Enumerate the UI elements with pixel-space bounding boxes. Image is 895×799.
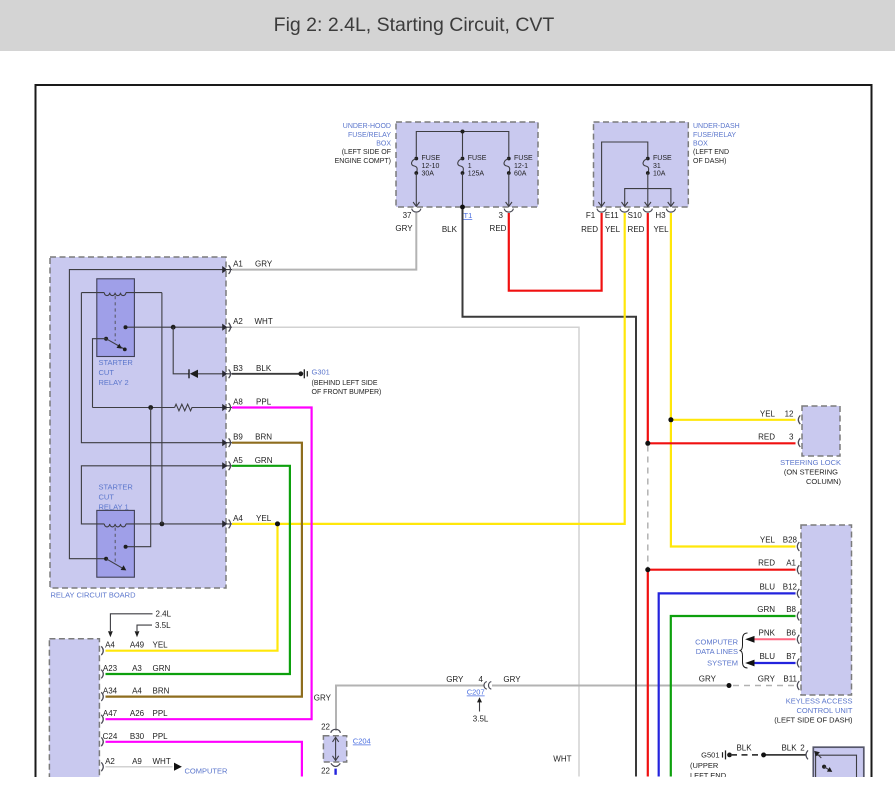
svg-text:22: 22 (321, 767, 330, 776)
svg-text:WHT: WHT (153, 757, 171, 766)
svg-text:BLK: BLK (256, 364, 272, 373)
svg-text:FUSE/RELAY: FUSE/RELAY (348, 132, 391, 139)
svg-text:A9: A9 (132, 757, 142, 766)
bottom box pin A4/A49 (101, 641, 168, 655)
fuse 12-10 30A (412, 155, 441, 206)
svg-text:3.5L: 3.5L (155, 621, 171, 630)
svg-text:RED: RED (758, 433, 775, 442)
svg-text:G301: G301 (312, 368, 330, 377)
svg-text:YEL: YEL (760, 410, 776, 419)
svg-text:B7: B7 (786, 652, 796, 661)
svg-text:C207: C207 (467, 688, 485, 697)
pin F1 connector (586, 202, 606, 220)
wire BLU keyless B12 (659, 593, 796, 776)
svg-text:30A: 30A (422, 171, 435, 178)
starter cut relay 2 label (99, 358, 134, 387)
svg-text:22: 22 (321, 723, 330, 732)
wire BRN B9 to A34 (106, 443, 302, 697)
steering lock label (780, 458, 841, 486)
blue stub below C204 (334, 769, 336, 775)
wire GRY to keyless B11 (dashed) (733, 685, 796, 687)
connector C207 (446, 675, 521, 697)
wire: F1 feed (602, 142, 648, 206)
header band (0, 0, 895, 51)
wire YEL branch to A4/A49 pin (106, 524, 278, 651)
svg-text:H3: H3 (655, 211, 666, 220)
node: GRY junction (727, 683, 732, 688)
svg-text:COMPUTER: COMPUTER (695, 638, 739, 647)
starter cut relay 2 box (97, 279, 135, 357)
svg-text:GRY: GRY (446, 675, 464, 684)
svg-text:10A: 10A (653, 171, 666, 178)
wire: A5 to relay1 coil (81, 466, 232, 524)
svg-text:WHT: WHT (254, 317, 272, 326)
bottom box pin A34/A4 (101, 687, 169, 701)
wire: A8 row (93, 407, 175, 409)
wire YEL to keyless B28 (671, 420, 796, 547)
keyless pin A1 (758, 559, 799, 575)
svg-text:SYSTEM: SYSTEM (707, 659, 738, 668)
wire PPL A8 to A47 (106, 408, 312, 720)
svg-text:RELAY 1: RELAY 1 (99, 502, 129, 511)
node: bus junction (461, 130, 465, 134)
keyless pin B12 (759, 582, 799, 598)
svg-text:(BEHIND LEFT SIDE: (BEHIND LEFT SIDE (312, 380, 378, 387)
bottom box pin A47/A26 (101, 709, 168, 723)
svg-text:B6: B6 (786, 628, 796, 637)
svg-text:12-1: 12-1 (514, 163, 528, 170)
svg-text:YEL: YEL (256, 514, 272, 523)
relay 1 coil (104, 524, 232, 527)
svg-text:ENGINE COMPT): ENGINE COMPT) (335, 158, 391, 165)
resistor R1 (175, 404, 232, 411)
svg-text:GRY: GRY (503, 675, 521, 684)
relay board pin A2 (222, 317, 273, 331)
keyless access control unit label (774, 697, 853, 725)
svg-text:4: 4 (478, 675, 483, 684)
svg-text:3: 3 (499, 211, 504, 220)
node: BLK splice (761, 753, 766, 758)
svg-text:FUSE/RELAY: FUSE/RELAY (693, 132, 736, 139)
svg-text:PNK: PNK (759, 628, 776, 637)
svg-text:B12: B12 (783, 582, 798, 591)
svg-text:2: 2 (800, 744, 805, 753)
svg-text:RED: RED (581, 225, 598, 234)
svg-text:YEL: YEL (760, 536, 776, 545)
svg-text:YEL: YEL (653, 225, 669, 234)
svg-text:A5: A5 (233, 456, 243, 465)
svg-text:FUSE: FUSE (514, 155, 533, 162)
svg-text:A2: A2 (233, 317, 243, 326)
svg-text:(ON STEERING: (ON STEERING (784, 468, 838, 477)
svg-text:C204: C204 (353, 737, 371, 746)
svg-text:STARTER: STARTER (99, 482, 134, 491)
node: red junction at steering lock (645, 441, 650, 446)
svg-text:B30: B30 (130, 732, 145, 741)
pin 3 connector (499, 202, 514, 220)
wire GRN keyless B8 (671, 616, 796, 777)
under-hood box label (335, 123, 392, 165)
svg-text:BOX: BOX (376, 140, 391, 147)
svg-text:C24: C24 (103, 732, 118, 741)
svg-text:A49: A49 (130, 641, 145, 650)
svg-text:WHT: WHT (553, 755, 571, 764)
svg-text:RED: RED (490, 224, 507, 233)
keyless pin B7 (759, 652, 799, 668)
wire GRY pin37 to relay A1 (232, 213, 416, 270)
svg-text:PPL: PPL (256, 398, 272, 407)
pin 37 connector (403, 202, 421, 220)
bottom box pin A23/A3 (101, 664, 170, 678)
arrow on PNK wire (745, 636, 754, 643)
svg-text:BLK: BLK (442, 225, 458, 234)
steering lock pin 3 (758, 433, 800, 448)
svg-text:A1: A1 (233, 260, 243, 269)
ground G501 (690, 750, 732, 780)
svg-text:CUT: CUT (99, 492, 115, 501)
wire RED to keyless A1 and down (648, 570, 796, 777)
wire BLK to ignition switch pin 2 (764, 754, 806, 756)
svg-text:37: 37 (403, 211, 412, 220)
relay 2 coil (81, 293, 161, 296)
svg-text:KEYLESS ACCESS: KEYLESS ACCESS (786, 697, 853, 706)
relay board pin A5 (222, 456, 273, 470)
svg-text:2.4L: 2.4L (156, 610, 172, 619)
relay 2 actuator dashed (114, 296, 116, 341)
svg-text:GRY: GRY (699, 675, 717, 684)
svg-text:YEL: YEL (153, 641, 169, 650)
under-dash box label (693, 123, 740, 165)
wire: relay2 coil to A4 junction (161, 293, 163, 524)
wire PPL C24 down (106, 742, 302, 777)
svg-text:FUSE: FUSE (468, 155, 487, 162)
svg-text:RELAY CIRCUIT BOARD: RELAY CIRCUIT BOARD (51, 591, 137, 600)
node: yellow junction at steering lock (669, 417, 674, 422)
svg-text:B9: B9 (233, 433, 243, 442)
svg-text:1: 1 (468, 163, 472, 170)
wire: B9 to relay2 coil (81, 293, 232, 443)
svg-text:B8: B8 (786, 605, 796, 614)
node: A4 yellow branch junction (275, 522, 280, 527)
svg-text:(LEFT SIDE OF: (LEFT SIDE OF (342, 149, 391, 156)
svg-text:A47: A47 (103, 709, 118, 718)
svg-text:GRY: GRY (314, 694, 332, 703)
relay board pin A4 (222, 514, 272, 528)
keyless pin B6 (759, 628, 800, 644)
under-dash fuse/relay box U2 (594, 122, 689, 207)
svg-text:FUSE: FUSE (422, 155, 441, 162)
svg-text:CONTROL UNIT: CONTROL UNIT (797, 706, 853, 715)
node: relay1 common contact (124, 545, 128, 549)
computer destination arrow (174, 763, 182, 771)
svg-text:A26: A26 (130, 709, 145, 718)
svg-text:B3: B3 (233, 364, 243, 373)
svg-text:COLUMN): COLUMN) (806, 477, 842, 486)
svg-text:60A: 60A (514, 171, 527, 178)
arrow into ignition box (816, 753, 821, 758)
pin E11 connector (605, 202, 629, 220)
ignition box pin 2 (806, 750, 808, 759)
svg-text:T1: T1 (464, 211, 473, 220)
svg-text:STARTER: STARTER (99, 358, 134, 367)
svg-text:125A: 125A (468, 171, 485, 178)
svg-text:A1: A1 (786, 559, 796, 568)
wire: junction down to B3 diode (173, 327, 189, 374)
brace (740, 633, 748, 668)
bottom box pin A2/A9 (101, 757, 171, 771)
keyless pin B8 (757, 605, 799, 621)
relay board pin B3 (222, 364, 272, 378)
svg-text:A4: A4 (105, 641, 115, 650)
svg-text:12-10: 12-10 (422, 163, 440, 170)
wire BLK from T1 down to bottom (463, 207, 637, 777)
leader 3.5L (135, 621, 172, 637)
svg-text:31: 31 (653, 163, 661, 170)
svg-text:BLU: BLU (759, 582, 775, 591)
starter cut relay 1 label (99, 482, 134, 511)
svg-text:STEERING LOCK: STEERING LOCK (780, 458, 841, 467)
svg-text:BLK: BLK (736, 744, 752, 753)
svg-text:UNDER-DASH: UNDER-DASH (693, 123, 740, 130)
wire GRY long run (336, 686, 728, 731)
svg-text:A34: A34 (103, 687, 118, 696)
svg-text:BLK: BLK (781, 744, 797, 753)
relay 1 switch (104, 557, 126, 571)
steering lock pin 12 (760, 410, 800, 425)
svg-text:BRN: BRN (153, 687, 170, 696)
node: A8 junction (148, 405, 153, 410)
svg-text:UNDER-HOOD: UNDER-HOOD (343, 123, 391, 130)
svg-text:GRY: GRY (395, 224, 413, 233)
svg-text:G501: G501 (701, 751, 719, 760)
svg-text:PPL: PPL (153, 732, 169, 741)
svg-text:(LEFT SIDE OF DASH): (LEFT SIDE OF DASH) (774, 716, 853, 725)
bottom box pin C24/B30 (101, 732, 168, 746)
svg-text:A23: A23 (103, 664, 118, 673)
relay 2 switch (93, 337, 127, 408)
relay board pin A8 (222, 398, 272, 412)
svg-text:BRN: BRN (255, 433, 272, 442)
wire GRN A5 to A23 (106, 466, 290, 674)
svg-text:B28: B28 (783, 536, 798, 545)
svg-text:F1: F1 (586, 211, 596, 220)
node: A4/coils junction (160, 522, 165, 527)
wire WHT A2 across and down (232, 327, 579, 776)
wire YEL E11 to relay A4 row (232, 213, 625, 524)
svg-text:DATA LINES: DATA LINES (696, 647, 738, 656)
junction dots overlay (275, 205, 766, 758)
under-hood fuse/relay box U1 (396, 122, 538, 207)
svg-text:B11: B11 (783, 675, 797, 684)
bottom-left connector box (49, 639, 99, 778)
wire BLU keyless B7 (753, 662, 796, 664)
ignition switch box (813, 747, 864, 778)
svg-text:E11: E11 (605, 211, 619, 220)
node: relay2 common contact (124, 325, 128, 329)
wire RED pin3 to F1 (509, 213, 602, 291)
svg-text:A8: A8 (233, 398, 243, 407)
3.5L note arrow (473, 697, 489, 723)
arrow on BLU wire (745, 660, 754, 667)
ignition switch contact (822, 765, 832, 772)
svg-text:GRY: GRY (255, 260, 273, 269)
svg-text:A3: A3 (132, 664, 142, 673)
wire BLK B3 to G301 (232, 373, 300, 375)
svg-text:YEL: YEL (605, 225, 621, 234)
wire BLK dashed to splice (731, 754, 764, 756)
svg-text:GRN: GRN (255, 456, 273, 465)
svg-text:COMPUTER: COMPUTER (185, 767, 229, 776)
svg-text:3.5L: 3.5L (473, 715, 489, 724)
svg-text:GRN: GRN (757, 605, 775, 614)
svg-text:GRN: GRN (153, 664, 171, 673)
svg-text:S10: S10 (628, 211, 643, 220)
wire PNK keyless B6 (753, 638, 796, 640)
svg-text:A4: A4 (233, 514, 243, 523)
wire WHT A2/A9 row (106, 766, 173, 768)
wire RED S10 to steering lock pin 3 (648, 213, 796, 443)
wire: A1 to relay1 pivot (69, 270, 232, 559)
svg-text:Fig 2: 2.4L, Starting Circuit,: Fig 2: 2.4L, Starting Circuit, CVT (274, 14, 555, 36)
svg-text:CUT: CUT (99, 368, 115, 377)
ground G301 (298, 368, 381, 396)
leader 2.4L (108, 610, 172, 638)
wire: A2 to relay2 common (126, 326, 233, 328)
wire YEL H3 to steering lock pin 12 (671, 213, 796, 420)
relay board pin B9 (222, 433, 272, 447)
dashed gray link wire (647, 446, 649, 570)
svg-text:3: 3 (789, 433, 794, 442)
svg-text:PPL: PPL (153, 709, 169, 718)
svg-text:RED: RED (628, 225, 645, 234)
keyless pin B11 (758, 675, 800, 691)
svg-text:RED: RED (758, 559, 775, 568)
svg-text:BOX: BOX (693, 140, 708, 147)
pin H3 connector (655, 202, 675, 220)
diode D1 (189, 369, 232, 378)
relay board pin A1 (222, 260, 273, 274)
svg-text:GRY: GRY (758, 675, 776, 684)
keyless pin B28 (760, 536, 799, 552)
wire: A8 junction down to relay1 common (127, 408, 151, 547)
svg-text:OF DASH): OF DASH) (693, 158, 726, 165)
svg-text:BLU: BLU (759, 652, 775, 661)
bottom white cut (0, 777, 895, 799)
svg-text:FUSE: FUSE (653, 155, 672, 162)
steering lock box (802, 406, 840, 456)
fuse 12-1 60A (504, 155, 533, 206)
node: red junction at keyless A1 (645, 567, 650, 572)
computer data lines system label (695, 638, 739, 668)
terminal T1 node (460, 205, 464, 209)
svg-text:RELAY 2: RELAY 2 (99, 378, 129, 387)
svg-text:(LEFT END: (LEFT END (693, 149, 729, 156)
connector C204 (321, 723, 371, 776)
svg-text:(UPPER: (UPPER (690, 761, 719, 770)
node: A2/B3 junction (171, 325, 176, 330)
svg-text:A2: A2 (105, 757, 115, 766)
fuse 1 125A (458, 155, 487, 207)
fuse 31 10A (643, 155, 672, 207)
wire: E11/H3 bar (625, 189, 671, 206)
wire: under-hood bus (416, 132, 509, 157)
svg-text:OF FRONT BUMPER): OF FRONT BUMPER) (312, 389, 382, 396)
relay circuit board (50, 257, 226, 588)
relay 1 actuator dashed (114, 528, 116, 563)
pin S10 connector (628, 202, 653, 220)
svg-text:12: 12 (785, 410, 794, 419)
svg-text:A4: A4 (132, 687, 142, 696)
starter cut relay 1 box (97, 510, 135, 577)
keyless access control unit box (801, 525, 852, 695)
